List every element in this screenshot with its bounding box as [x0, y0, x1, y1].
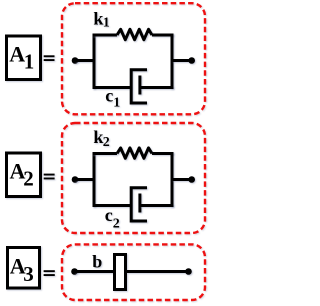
node: left terminal row 1: [72, 57, 79, 64]
dashed boundary box row 3: [62, 244, 205, 300]
wire: left junction bar row 1: [93, 34, 96, 90]
equals sign row 2: [44, 174, 55, 180]
node: right terminal row 3: [185, 268, 192, 275]
value label k1: [93, 8, 109, 30]
wire: left terminal to damper b row 3: [75, 270, 115, 273]
value label b: [92, 252, 102, 272]
value label k2: [93, 127, 109, 150]
dashed boundary box row 2: [62, 123, 205, 233]
dashed boundary box row 1: [62, 3, 205, 114]
wire: bottom rail left segment row 1: [93, 86, 132, 89]
wire: top rail left segment row 2: [93, 152, 118, 155]
label box A1: [7, 36, 41, 80]
damper c2 cylinder: [131, 188, 147, 221]
svg-text:3: 3: [23, 262, 34, 286]
svg-text:1: 1: [103, 16, 110, 31]
wire: top rail right segment row 1: [152, 34, 174, 37]
damper c1 cylinder: [131, 70, 147, 103]
damper b box element: [115, 255, 126, 290]
equals sign row 3: [44, 270, 55, 276]
label box A2: [7, 153, 41, 197]
svg-text:b: b: [92, 252, 102, 272]
svg-text:2: 2: [113, 216, 120, 231]
equals sign row 1: [44, 55, 55, 61]
wire: left terminal to left bar row 2: [75, 178, 93, 181]
wire: left junction bar row 2: [93, 152, 96, 207]
node: left terminal row 2: [72, 176, 79, 183]
spring k2: [117, 148, 152, 158]
wire: damper b to right terminal row 3: [127, 270, 189, 273]
wire: left terminal to left bar row 1: [75, 59, 93, 62]
node: left terminal row 3: [71, 268, 78, 275]
svg-text:c: c: [105, 205, 113, 225]
wire: right junction bar row 2: [171, 152, 174, 207]
value label c1: [105, 86, 120, 111]
node: right terminal row 1: [188, 57, 195, 64]
damper c2 piston: [138, 194, 141, 213]
svg-text:c: c: [105, 86, 113, 106]
wire: top rail left segment row 1: [93, 34, 118, 37]
wire: top rail right segment row 2: [152, 152, 174, 155]
svg-text:2: 2: [103, 135, 110, 150]
label box A3: [8, 248, 40, 289]
svg-text:1: 1: [24, 50, 35, 74]
spring k1: [117, 29, 152, 39]
wire: bottom rail right segment row 2: [140, 204, 174, 207]
svg-text:2: 2: [23, 167, 34, 191]
value label c2: [105, 205, 120, 231]
wire: bottom rail right segment row 1: [140, 86, 174, 89]
wire: bottom rail left segment row 2: [93, 204, 132, 207]
wire: right bar to right terminal row 2: [172, 178, 192, 181]
wire: right bar to right terminal row 1: [172, 59, 192, 62]
wire: right junction bar row 1: [171, 34, 174, 90]
damper c1 piston: [138, 76, 141, 95]
svg-text:1: 1: [113, 96, 120, 111]
node: right terminal row 2: [188, 176, 195, 183]
